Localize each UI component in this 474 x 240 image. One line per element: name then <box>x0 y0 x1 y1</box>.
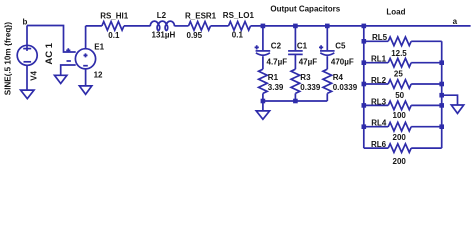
wire E1 output top <box>86 26 102 49</box>
ground under V4 <box>21 90 34 99</box>
svg-text:3.39: 3.39 <box>268 83 284 92</box>
svg-text:R3: R3 <box>300 73 311 82</box>
junction dots right rail <box>439 60 444 65</box>
wire b: V4 top to E1 + control <box>27 26 76 53</box>
svg-text:0.0339: 0.0339 <box>333 83 358 92</box>
svg-text:12: 12 <box>94 71 103 80</box>
junction dots bottom rail <box>261 99 266 104</box>
svg-text:AC 1: AC 1 <box>44 42 55 64</box>
load left rail <box>363 26 365 148</box>
wire <box>211 25 229 27</box>
resistor RL6 <box>364 144 442 153</box>
wire right rail to load ground <box>442 95 458 105</box>
svg-text:RL5: RL5 <box>372 33 388 42</box>
svg-text:RL6: RL6 <box>371 140 387 149</box>
svg-text:RL2: RL2 <box>371 76 387 85</box>
wire V4 top <box>26 26 28 51</box>
svg-text:Load: Load <box>386 7 405 16</box>
resistor RL4 <box>364 122 442 131</box>
svg-text:E1: E1 <box>94 42 104 51</box>
svg-text:Output Capacitors: Output Capacitors <box>270 5 340 14</box>
svg-text:RL3: RL3 <box>371 97 387 106</box>
svg-text:b: b <box>23 18 28 27</box>
wire to ground under caps <box>262 101 264 111</box>
resistor RS_HI1 <box>102 22 124 31</box>
resistor R3 <box>291 69 300 93</box>
wire V4 bottom <box>26 65 28 90</box>
svg-text:470µF: 470µF <box>331 57 354 66</box>
bottom rail of capacitor bank <box>263 100 327 102</box>
svg-text:200: 200 <box>393 133 407 142</box>
load right rail <box>441 41 443 148</box>
svg-text:C5: C5 <box>335 42 346 51</box>
svg-text:C2: C2 <box>271 42 282 51</box>
wire <box>175 25 189 27</box>
resistor RL1 <box>364 58 442 67</box>
svg-text:50: 50 <box>395 91 404 100</box>
svg-text:0.1: 0.1 <box>232 31 244 40</box>
svg-text:RS_HI1: RS_HI1 <box>100 12 129 21</box>
svg-text:4.7µF: 4.7µF <box>267 57 288 66</box>
wire C2 to R1 <box>262 56 264 69</box>
resistor RL5 <box>364 37 442 46</box>
svg-text:0.1: 0.1 <box>108 31 120 40</box>
op E1 dependent source <box>75 49 95 69</box>
resistor RS_LO1 <box>229 22 251 31</box>
wire E1 output bottom <box>85 69 87 86</box>
wire E1 minus control to ground <box>61 65 76 75</box>
ground E1 control <box>55 75 67 83</box>
resistor RL2 <box>364 80 442 89</box>
capacitor C2 polarized <box>256 50 271 52</box>
wire R4 bottom <box>326 93 328 101</box>
svg-text:47µF: 47µF <box>299 57 318 66</box>
svg-text:RL4: RL4 <box>371 118 387 127</box>
ground load <box>451 105 463 113</box>
svg-text:100: 100 <box>393 111 407 120</box>
branch wire C1 <box>294 26 296 50</box>
branch wire C5 <box>326 26 328 50</box>
wire C5 to R4 <box>326 56 328 69</box>
resistor R1 <box>259 69 268 93</box>
svg-text:a: a <box>453 17 458 26</box>
svg-text:131µH: 131µH <box>152 31 176 40</box>
svg-text:SINE(.5 10m {freq}): SINE(.5 10m {freq}) <box>4 22 13 96</box>
svg-text:RS_LO1: RS_LO1 <box>223 11 255 20</box>
wire R1 bottom <box>262 93 264 101</box>
svg-text:25: 25 <box>394 70 403 79</box>
resistor RL3 <box>364 101 442 110</box>
branch wire C2 <box>262 26 264 50</box>
capacitor C5 polarized <box>320 50 335 52</box>
wire C1 to R3 <box>294 54 296 69</box>
svg-text:0.95: 0.95 <box>187 31 203 40</box>
junction dots left rail <box>362 39 367 44</box>
svg-text:R1: R1 <box>268 73 279 82</box>
resistor R_ESR1 <box>189 22 211 31</box>
svg-text:R_ESR1: R_ESR1 <box>185 12 217 21</box>
capacitor C1 <box>288 50 303 52</box>
junction dots top wire <box>261 24 266 29</box>
svg-text:0.339: 0.339 <box>300 83 321 92</box>
resistor R4 <box>323 69 332 93</box>
svg-text:V4: V4 <box>29 70 38 80</box>
svg-text:12.5: 12.5 <box>391 49 407 58</box>
wire R3 bottom <box>294 93 296 101</box>
voltage source V4 <box>17 45 37 65</box>
inductor L2 <box>150 21 174 26</box>
svg-text:RL1: RL1 <box>371 54 387 63</box>
svg-text:C1: C1 <box>297 42 308 51</box>
ground under capacitor bank <box>256 111 269 119</box>
svg-text:R4: R4 <box>333 73 344 82</box>
top wire to node a <box>251 25 471 27</box>
ground E1 output <box>79 86 91 94</box>
svg-text:L2: L2 <box>157 11 167 20</box>
svg-text:200: 200 <box>393 157 407 166</box>
wire <box>124 25 150 27</box>
